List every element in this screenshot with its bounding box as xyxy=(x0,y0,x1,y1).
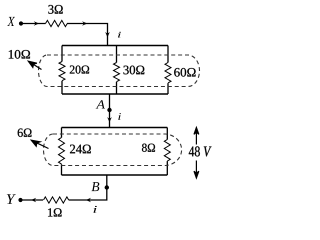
label 60ohm xyxy=(174,68,195,77)
node dot A xyxy=(107,108,111,112)
terminal Y label xyxy=(7,194,16,204)
current arrow on top wire (right) xyxy=(82,21,87,26)
wire box1 to box2 xyxy=(109,94,111,128)
label 10ohm xyxy=(9,50,30,59)
label 3ohm xyxy=(48,5,62,14)
box 2 top rail xyxy=(62,127,168,129)
48V dimension arrow (bottom half) xyxy=(194,161,199,179)
node B label xyxy=(92,182,100,191)
current arrow down into box1 xyxy=(105,32,110,37)
node dot at Y xyxy=(18,198,22,202)
label 48 V xyxy=(189,146,212,156)
box 1 bottom rail xyxy=(62,93,168,95)
terminal X label xyxy=(7,17,15,26)
resistor 8ohm (right edge of box2) xyxy=(166,128,168,176)
dashed equivalence oval around box2 resistors xyxy=(44,134,182,166)
wire X to 3ohm resistor xyxy=(23,23,46,25)
box 1 top rail xyxy=(62,45,168,47)
wire 3ohm resistor to corner, down to box 1 xyxy=(67,24,108,46)
current arrow down to box2 xyxy=(107,117,112,122)
label 30ohm xyxy=(124,66,145,75)
box 2 bottom rail xyxy=(62,174,168,176)
node dot B xyxy=(105,185,109,189)
48V dimension arrow (top half) xyxy=(194,128,199,145)
label i (bottom) xyxy=(94,206,97,213)
pointer arrow to 6ohm xyxy=(31,140,48,148)
node dot at X xyxy=(19,21,23,25)
label 24ohm xyxy=(70,145,91,154)
resistor 3ohm zigzag xyxy=(46,20,68,26)
current arrow on bottom wire (right) xyxy=(86,198,91,203)
resistor 24ohm (left edge of box2) xyxy=(61,128,63,176)
resistor 1ohm zigzag xyxy=(44,197,69,203)
label 6ohm xyxy=(18,129,32,137)
resistor 20ohm (left edge of box1) xyxy=(61,46,63,95)
wire 1ohm to Y xyxy=(23,199,44,201)
current arrow on bottom wire (left) xyxy=(31,198,36,203)
label 20ohm xyxy=(70,66,89,74)
label 8ohm xyxy=(142,144,155,152)
label i (top) xyxy=(118,32,121,38)
current arrow on top wire (left) xyxy=(34,21,39,26)
resistor 30ohm (middle branch of box1) xyxy=(116,46,118,95)
wire box2 down to bottom rail, left to 1ohm xyxy=(69,175,107,200)
label i (middle) xyxy=(118,113,121,120)
pointer arrow to 10ohm xyxy=(28,61,41,69)
resistor 60ohm (right edge of box1) xyxy=(167,46,169,95)
dashed equivalence oval around box1 resistors xyxy=(39,55,200,87)
label 1ohm xyxy=(48,208,62,216)
node A label xyxy=(96,100,105,108)
